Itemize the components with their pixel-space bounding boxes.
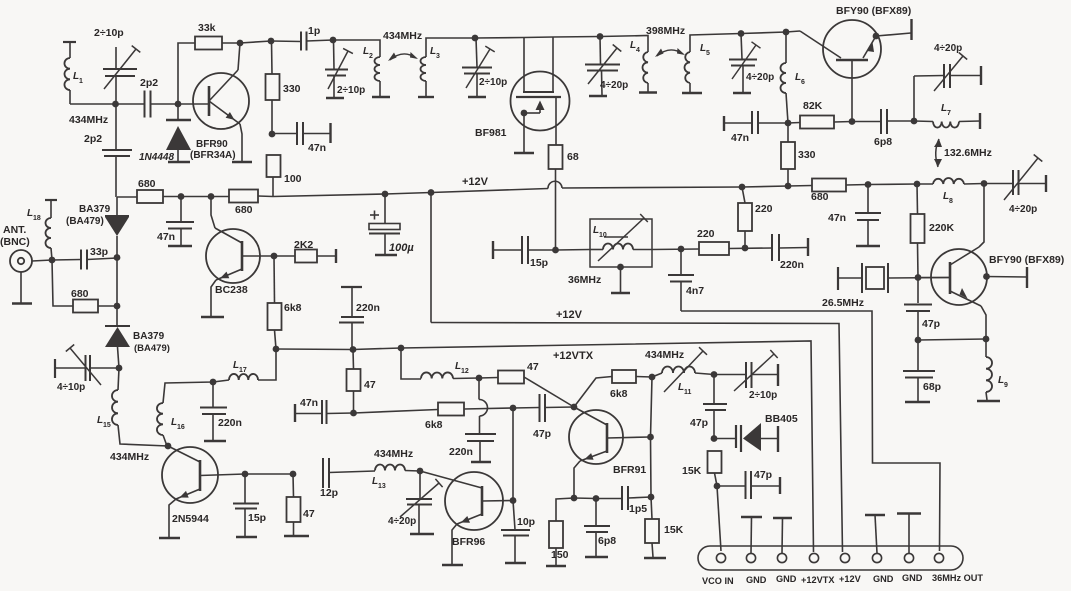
svg-text:GND: GND: [746, 575, 767, 585]
node L2 tank top: [330, 37, 337, 44]
wire 47 TX bottom: [293, 522, 295, 535]
label 47 vertical: [364, 379, 376, 391]
label 434MHz under L1: [69, 114, 108, 126]
label 4/20p tank4: [746, 72, 774, 83]
ground 220n L16: [204, 440, 226, 442]
ground 2K2 bar: [335, 249, 337, 263]
node 4n7 junction: [678, 246, 685, 253]
svg-text:100: 100: [284, 173, 302, 185]
inductor L8: [933, 178, 964, 184]
label L6: [795, 72, 801, 83]
ground BF981 source: [514, 152, 534, 154]
label L2: [363, 46, 369, 57]
node L12 47 node: [476, 375, 483, 382]
label L2 sub: [369, 53, 373, 60]
wire L13 to base node: [405, 470, 420, 473]
svg-text:4n7: 4n7: [686, 285, 704, 297]
label L8: [943, 191, 949, 202]
svg-text:47p: 47p: [754, 469, 772, 481]
label 15K varicap: [682, 465, 702, 477]
label 36MHz box: [568, 274, 601, 286]
capacitor 2p2 shunt: [102, 104, 132, 197]
wire 47 vert bottom: [353, 391, 355, 413]
wire gate node to BF981: [475, 37, 600, 39]
ground L7 bar: [979, 113, 981, 129]
label 330 L6: [798, 149, 816, 161]
svg-text:33k: 33k: [198, 22, 216, 34]
label 220K: [929, 222, 955, 234]
svg-text:+12VTX: +12VTX: [553, 350, 594, 362]
label L16: [171, 417, 177, 428]
node BC238 base node: [271, 253, 278, 260]
label 2p2 series: [140, 77, 158, 89]
label 680 input rail: [138, 178, 156, 190]
pin GND: [746, 553, 755, 562]
wire L15 bottom: [118, 425, 168, 446]
node TX trimmer node: [116, 365, 123, 372]
svg-text:(BFR34A): (BFR34A): [190, 150, 236, 161]
capacitor 6p8 TX: [584, 499, 610, 557]
wire hop branch: [479, 378, 488, 434]
label GND pin6: [873, 574, 894, 584]
wire 330 column: [272, 41, 274, 197]
wire 1p to L2: [307, 40, 381, 57]
ground tank1 trimmer: [326, 97, 344, 99]
wire 330 L6 top: [787, 123, 789, 142]
wire rail seg4: [562, 186, 812, 189]
label 2/10p vco: [749, 390, 777, 401]
capacitor 47p feed: [513, 394, 574, 422]
svg-text:12p: 12p: [320, 487, 338, 499]
inductor L7: [933, 122, 959, 128]
ground 220n hop: [471, 461, 491, 463]
label L18: [27, 208, 33, 219]
label 4/10p: [57, 382, 85, 393]
svg-text:11: 11: [684, 389, 692, 396]
svg-text:47n: 47n: [308, 142, 326, 154]
label BFR96: [452, 536, 485, 548]
label BNC: [0, 236, 30, 248]
label 150: [551, 549, 569, 561]
svg-text:GND: GND: [902, 573, 923, 583]
ground L3: [418, 96, 434, 98]
wire base to 6k8c: [574, 377, 612, 408]
node emitter L9 node: [983, 336, 990, 343]
ground 6p8 TX: [585, 556, 608, 558]
pin GND: [904, 553, 913, 562]
wire BFR90 emitter down: [240, 124, 242, 162]
svg-text:220n: 220n: [449, 446, 473, 458]
label 47n TX: [300, 397, 318, 409]
wire +12VTX rail: [276, 341, 814, 552]
label L16 sub: [177, 424, 185, 431]
svg-text:+12VTX: +12VTX: [801, 575, 835, 585]
inductor L15: [112, 390, 118, 425]
resistor 47 row: [498, 371, 524, 384]
wire 82K to base node: [834, 121, 852, 124]
svg-text:ANT.: ANT.: [3, 224, 26, 236]
svg-text:68: 68: [567, 151, 579, 163]
wire 68 to IF node: [555, 169, 557, 250]
svg-text:2÷10p: 2÷10p: [337, 85, 365, 96]
label L7 sub: [947, 110, 951, 117]
ground L7 trimmer bar: [980, 66, 982, 85]
wire BC238 collector up: [211, 197, 215, 229]
capacitor 1p: [301, 32, 307, 51]
inductor L2: [375, 57, 381, 81]
capacitor 47n osc: [855, 185, 881, 246]
svg-text:220n: 220n: [356, 302, 380, 314]
svg-text:10: 10: [599, 232, 607, 239]
label L10 sub: [599, 232, 607, 239]
transistor Q3 BFY90 osc: [918, 247, 987, 306]
svg-text:4÷20p: 4÷20p: [1009, 204, 1037, 215]
ground tank3 trimmer: [589, 95, 607, 97]
wire L4 bottom: [647, 83, 649, 92]
label 47p feed: [533, 428, 551, 440]
svg-text:GND: GND: [776, 574, 797, 584]
inductor L12: [421, 372, 453, 378]
pin GND: [777, 553, 786, 562]
diode 1N4448: [166, 104, 191, 161]
capacitor 47p osc: [904, 278, 932, 341]
capacitor 47p vco in: [717, 471, 780, 499]
wire L2 bottom: [379, 81, 381, 96]
svg-text:6k8: 6k8: [425, 419, 443, 431]
node L6 bottom junction: [785, 120, 792, 127]
resistor 33k: [195, 37, 222, 50]
node 220K tap: [914, 181, 921, 188]
wire L3 bottom: [425, 81, 427, 96]
ground BFR90 emitter: [232, 161, 252, 163]
svg-text:5: 5: [706, 50, 710, 57]
wire BFY90 emitter out: [876, 33, 911, 36]
label GND pin2: [746, 575, 767, 585]
svg-text:47: 47: [527, 361, 539, 373]
wire 47 vert top: [352, 350, 355, 370]
svg-text:(BA479): (BA479): [134, 343, 170, 354]
svg-text:BF981: BF981: [475, 127, 507, 139]
ground osc out bar: [1026, 267, 1028, 288]
label BC238: [215, 284, 248, 296]
wire osc collector up: [979, 184, 984, 248]
wire 15K varicap bottom: [715, 473, 718, 486]
wire 220 to 220n: [729, 247, 772, 250]
label 10p: [517, 516, 535, 528]
svg-text:+12V: +12V: [462, 176, 489, 188]
svg-text:680: 680: [138, 178, 156, 190]
svg-text:150: 150: [551, 549, 569, 561]
capacitor 47n TX: [295, 400, 354, 424]
ground 47n rail: [168, 245, 192, 247]
node BFR96 collector node: [510, 497, 517, 504]
wire L8 right: [964, 183, 984, 186]
label ANT.: [3, 224, 26, 236]
node 47n tap: [269, 131, 276, 138]
transistor Q4 BC238: [206, 228, 274, 283]
resistor 47 TX: [287, 497, 301, 522]
label 132.6MHz: [944, 147, 992, 159]
wire L17 to L16: [163, 380, 229, 403]
transistor Q7 BFR91: [569, 407, 650, 464]
wire 1p5 to column: [628, 497, 651, 498]
label L4 sub: [636, 47, 640, 54]
svg-text:15K: 15K: [682, 465, 702, 477]
label VCO IN: [702, 576, 734, 586]
node IF junction: [552, 247, 559, 254]
label 12p: [320, 487, 338, 499]
label 26.5MHz: [822, 297, 864, 309]
node L11 node: [649, 374, 656, 381]
ground 68p: [905, 401, 930, 403]
transistor Q2 BFY90: [800, 20, 881, 121]
inductor L4: [643, 52, 649, 83]
node BC238 coll tap: [208, 193, 215, 200]
label 47 row: [527, 361, 539, 373]
label 15K vco: [664, 524, 684, 536]
svg-text:+12V: +12V: [839, 574, 862, 584]
capacitor 47n rail: [166, 197, 194, 246]
svg-text:2: 2: [369, 53, 373, 60]
label BA479 lower: [134, 343, 170, 354]
label 220n hop: [449, 446, 473, 458]
wire 150 bottom: [555, 548, 557, 565]
svg-text:6k8: 6k8: [610, 388, 628, 400]
svg-text:47n: 47n: [731, 132, 749, 144]
wire BFR90 collector up: [238, 43, 240, 70]
node crystal base node: [915, 274, 922, 281]
wire L3 top: [426, 38, 475, 57]
capacitor 220n hop: [465, 434, 496, 461]
svg-text:100µ: 100µ: [389, 242, 414, 254]
label 4/20p L7: [934, 43, 962, 54]
capacitor 47n tap: [272, 122, 330, 145]
svg-text:2÷10p: 2÷10p: [479, 77, 507, 88]
resistor 15K varicap: [708, 451, 722, 473]
inductor L6: [781, 63, 787, 93]
wire emitter row: [918, 339, 986, 340]
label 2K2: [294, 239, 313, 251]
capacitor 47n at L6: [724, 111, 788, 134]
capacitor 33p: [81, 250, 87, 270]
label 220n out: [780, 259, 804, 271]
label L10: [593, 225, 599, 236]
svg-text:(BA479): (BA479): [66, 216, 104, 227]
svg-text:BA379: BA379: [133, 331, 165, 342]
resistor 680 loop: [73, 300, 98, 313]
ground BNC: [12, 302, 32, 304]
svg-text:26.5MHz: 26.5MHz: [822, 297, 864, 309]
wire L16 bottom: [163, 435, 167, 446]
label 47n tap: [308, 142, 326, 154]
svg-text:36MHz OUT: 36MHz OUT: [932, 573, 983, 583]
resistor 220K: [911, 214, 925, 243]
inductor L18 bar: [45, 200, 57, 218]
ground 47 TX: [284, 535, 309, 537]
wire 2N5944 collector: [245, 473, 293, 475]
capacitor 68p: [903, 340, 935, 401]
node L6 top: [783, 29, 790, 36]
wire IF to L10: [556, 249, 591, 252]
node 33p diode node: [114, 254, 121, 261]
svg-text:680: 680: [235, 204, 253, 216]
label 47n osc: [828, 212, 846, 224]
ground 220n out bar: [807, 238, 809, 256]
svg-text:2K2: 2K2: [294, 239, 313, 251]
svg-text:4÷20p: 4÷20p: [934, 43, 962, 54]
resistor 6k8 vco: [612, 370, 636, 383]
node 47n osc tap: [865, 181, 872, 188]
node BFR90 base junction: [175, 101, 182, 108]
wire 6k8 switch top: [273, 256, 276, 303]
label 2/10p gate: [479, 77, 507, 88]
svg-text:330: 330: [798, 149, 816, 161]
wire 6k8 switch bottom: [275, 330, 277, 349]
wire row to 6k8b: [354, 410, 439, 414]
wire 33p to diode node: [87, 258, 117, 260]
wire 33k to collector node: [222, 41, 271, 43]
node L10 gnd tap: [617, 264, 624, 271]
svg-text:132.6MHz: 132.6MHz: [944, 147, 992, 159]
label L13 sub: [378, 483, 386, 490]
label 4n7: [686, 285, 704, 297]
svg-text:13: 13: [378, 483, 386, 490]
node 220 junction: [742, 245, 749, 252]
svg-text:4÷20p: 4÷20p: [600, 80, 628, 91]
pin VCO IN: [716, 553, 725, 562]
label L1 sub: [79, 78, 83, 85]
resistor 220 shunt: [738, 203, 752, 231]
label L17 sub: [239, 367, 247, 374]
wire L12 branch: [401, 348, 421, 379]
label 434MHz tank: [383, 30, 422, 42]
coupling arrow L4-L5: [655, 48, 685, 57]
node vco in node: [714, 483, 721, 490]
ground 15K vco: [644, 557, 666, 559]
resistor 15K vco: [645, 519, 659, 543]
wire BNC to 33p: [32, 260, 81, 262]
label L5 sub: [706, 50, 710, 57]
svg-text:15K: 15K: [664, 524, 684, 536]
wire 15K vco top: [651, 497, 652, 519]
ground L5: [682, 92, 702, 94]
node L12 tap: [398, 345, 405, 352]
svg-text:47p: 47p: [533, 428, 551, 440]
node 680 diode node: [114, 303, 121, 310]
label BFY90 (BFX89) top: [836, 5, 911, 17]
label 68: [567, 151, 579, 163]
wire +12V lower rail: [431, 323, 843, 553]
label BA379 lower: [133, 331, 165, 342]
svg-text:2÷10p: 2÷10p: [749, 390, 777, 401]
svg-text:12: 12: [461, 368, 469, 375]
label 434MHz TX1: [110, 451, 149, 463]
ground L8 trimmer bar: [1045, 175, 1047, 192]
svg-text:1: 1: [79, 78, 83, 85]
node varicap node: [711, 435, 718, 442]
wire L6 bottom: [786, 93, 788, 123]
label L8 sub: [949, 198, 953, 205]
ground BFY90 emitter bar: [910, 19, 912, 40]
label 6p8: [874, 136, 892, 148]
wire feed node down: [512, 408, 514, 500]
inductor L16: [157, 403, 163, 435]
label 100u: [389, 242, 414, 254]
svg-text:220n: 220n: [218, 417, 242, 429]
wire L5 bottom: [689, 83, 691, 92]
wire L9 stem: [985, 339, 987, 357]
svg-text:1p5: 1p5: [629, 503, 647, 515]
ground L4: [639, 91, 657, 93]
ground tank4 trimmer: [733, 92, 751, 94]
label 100: [284, 173, 302, 185]
label BFR91: [613, 464, 646, 476]
inductor L13: [375, 465, 405, 471]
node BNC junction: [49, 257, 56, 264]
label +12V main: [462, 176, 489, 188]
svg-text:15: 15: [103, 422, 111, 429]
svg-text:15p: 15p: [248, 512, 266, 524]
transistor Q6 BFR96: [420, 471, 513, 530]
svg-text:(BNC): (BNC): [0, 236, 30, 248]
node emitter node: [571, 495, 578, 502]
node 1p5 node: [648, 494, 655, 501]
node BFR91 base node: [571, 404, 578, 411]
label BFR34A: [190, 150, 236, 161]
wire L11 right: [695, 373, 714, 375]
wire 150 branch: [556, 498, 574, 521]
wire L7 left: [914, 120, 933, 123]
label L3: [430, 46, 436, 57]
label L9: [998, 375, 1004, 386]
svg-text:GND: GND: [873, 574, 894, 584]
node 47p feed node: [510, 405, 517, 412]
label L9 sub: [1004, 382, 1008, 389]
label 220 shunt: [755, 203, 773, 215]
ground 100u: [375, 254, 397, 256]
pin GND: [872, 553, 881, 562]
ground BC238: [201, 316, 224, 318]
svg-text:9: 9: [1004, 382, 1008, 389]
trimmer capacitor 2-10p gate: [462, 38, 495, 96]
svg-text:220: 220: [755, 203, 773, 215]
label 220 series: [697, 228, 715, 240]
label L17: [233, 360, 239, 371]
wire L7 right: [959, 120, 980, 123]
transistor Q5 2N5944: [162, 446, 245, 503]
ground 15p TX: [236, 536, 257, 538]
node L7 node: [911, 118, 918, 125]
ground 47n osc: [856, 245, 880, 247]
capacitor 15p TX: [233, 474, 259, 536]
ground 10p: [505, 562, 526, 564]
label L3 sub: [436, 53, 440, 60]
node BF981 gate node: [472, 35, 479, 42]
svg-text:BB405: BB405: [765, 413, 798, 425]
wire L18 bottom: [51, 248, 52, 260]
wire BC238 emitter down: [211, 280, 216, 316]
svg-text:220K: 220K: [929, 222, 955, 234]
label 33p: [90, 246, 108, 258]
wire 82K left: [788, 122, 800, 125]
node osc out: [983, 273, 990, 280]
node rail 330 tap: [785, 183, 792, 190]
resistor 68: [549, 145, 563, 169]
trimmer capacitor 2-10p vco: [714, 350, 778, 391]
node rail 220 tap: [739, 184, 746, 191]
wire 15K vco bottom: [652, 543, 653, 557]
svg-text:6p8: 6p8: [598, 535, 616, 547]
